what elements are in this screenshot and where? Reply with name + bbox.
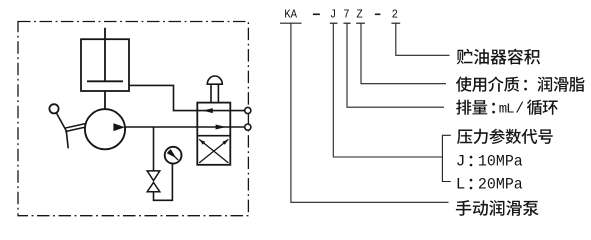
- enclosure boundary (dash-dot frame): [18, 22, 248, 216]
- push button dome: [207, 76, 222, 84]
- svg-text:L: L: [456, 175, 466, 193]
- valve upper flow path (left arrow): [197, 110, 230, 112]
- label: pressure parameter code: [457, 129, 553, 145]
- push button actuator stem: [211, 84, 218, 102]
- leader line 7 to displacement label: [347, 23, 444, 107]
- lever knob: [49, 104, 58, 113]
- valve closed position crossed arrows: [199, 139, 228, 163]
- leader line J to pressure bracket: [333, 23, 442, 157]
- svg-text:20MPa: 20MPa: [478, 175, 523, 193]
- leader line KA to pump label: [291, 23, 449, 202]
- wire shutoff valve to gauge: [154, 164, 173, 201]
- pressure gauge G1: [165, 147, 182, 164]
- branch wire to shutoff valve: [153, 127, 155, 171]
- valve lower flow path (right arrow): [197, 126, 230, 128]
- underline under 7: [343, 22, 350, 24]
- wire reservoir to directional valve upper port: [129, 85, 245, 110]
- hand pump P1: [85, 109, 125, 149]
- valve position divide line: [197, 135, 230, 137]
- svg-text:/: /: [515, 100, 524, 117]
- svg-text:mL: mL: [499, 101, 515, 117]
- bracket for pressure codes: [442, 135, 450, 181]
- svg-text:J: J: [330, 8, 336, 22]
- model code hyphen 1: [313, 13, 320, 15]
- label: medium = grease: [456, 76, 519, 92]
- lever handle rod: [56, 113, 68, 149]
- port B circle: [245, 124, 251, 130]
- port A circle: [245, 107, 251, 113]
- wire reservoir to pump inlet: [104, 91, 106, 109]
- svg-text:KA: KA: [284, 8, 297, 22]
- reservoir (grease tank): [81, 39, 129, 91]
- svg-text:2: 2: [392, 8, 398, 22]
- gauge needle: [169, 151, 179, 160]
- underline under J: [330, 22, 338, 24]
- svg-text:Z: Z: [356, 8, 362, 22]
- leader line 2 to capacity label: [396, 23, 450, 55]
- label: displacement mL/cycle: [456, 100, 487, 115]
- svg-text:J: J: [456, 152, 466, 170]
- model code hyphen 2: [375, 13, 381, 15]
- wire pump outlet to valve lower port: [125, 126, 245, 128]
- label: reservoir capacity: [457, 49, 540, 65]
- directional valve U1 body: [197, 103, 230, 165]
- shutoff valve V2 (two triangles): [147, 171, 160, 192]
- underline under 2: [391, 22, 400, 24]
- label: manual lubrication pump: [456, 200, 539, 216]
- lever linkage lines: [65, 124, 86, 132]
- svg-text:7: 7: [343, 8, 349, 22]
- underline under Z: [356, 22, 365, 24]
- leader line Z to medium label: [361, 23, 446, 83]
- underline under KA: [280, 22, 302, 24]
- reservoir internal pipe and level line: [87, 28, 123, 82]
- pump outlet flow triangle: [113, 123, 125, 131]
- svg-text:10MPa: 10MPa: [478, 152, 523, 170]
